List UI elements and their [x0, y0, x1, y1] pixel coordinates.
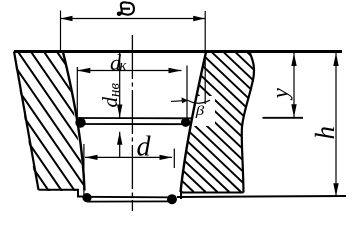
- dimension D right arrowhead: [193, 16, 205, 21]
- angle arc: [188, 100, 210, 103]
- bottom plate left ring dot: [82, 193, 91, 202]
- middle plate bottom line: [79, 123, 193, 125]
- bottom plate top line: [85, 196, 176, 199]
- label D (script): [118, 2, 134, 15]
- hatching left block: [0, 30, 167, 212]
- bottom plate right ring dot: [167, 194, 177, 204]
- bottom surface line right: [177, 196, 346, 197]
- svg-text:d: d: [137, 132, 152, 163]
- angle leader tail: [171, 100, 188, 101]
- middle plate left ring dot: [75, 117, 85, 127]
- dimension d right arrowhead: [160, 155, 173, 160]
- right inner tapered wall: [181, 52, 207, 192]
- dimension y line: [293, 53, 295, 117]
- top surface line: [14, 50, 342, 53]
- dimension dnv upper line with down arrow: [119, 51, 121, 118]
- h bottom arrowhead: [333, 183, 338, 196]
- dnv up arrowhead: [117, 132, 122, 145]
- dimension h line: [335, 53, 337, 196]
- svg-text:h: h: [310, 126, 340, 140]
- dimension d extension line right: [173, 149, 175, 169]
- middle plate right ring dot: [181, 118, 190, 127]
- dimension d extension line left: [83, 144, 85, 198]
- dimension dk line: [77, 70, 181, 72]
- centerline axis: [131, 35, 133, 211]
- dimension D left arrowhead: [61, 16, 73, 21]
- dimension dk right arrowhead: [169, 68, 182, 73]
- angle arrowhead: [182, 97, 189, 103]
- svg-text:β: β: [195, 103, 205, 118]
- dimension D line: [61, 18, 206, 20]
- middle plate top line: [78, 117, 193, 119]
- hatching right block: [22, 40, 354, 192]
- dimension dnv lower line with up arrow: [119, 132, 121, 158]
- y level reference line: [263, 117, 304, 119]
- y bottom arrowhead: [291, 104, 296, 117]
- right block bottom edge: [181, 193, 244, 200]
- dnv down arrowhead: [117, 105, 122, 118]
- h top arrowhead: [333, 53, 338, 66]
- dimension dk left arrowhead: [77, 68, 90, 73]
- dimension D extension line left: [60, 11, 62, 51]
- dimension d left arrowhead: [85, 155, 98, 160]
- white pocket around angle annotation: [189, 96, 215, 126]
- y top arrowhead: [291, 53, 296, 66]
- dimension dk extension line left: [76, 67, 78, 118]
- right block outer wavy edge: [242, 51, 254, 193]
- svg-text:y: y: [268, 87, 293, 100]
- dimension D extension line right / angle reference: [204, 11, 206, 104]
- left block bottom edge: [39, 190, 86, 197]
- dimension d line: [85, 156, 172, 158]
- left block outer edge: [14, 52, 39, 190]
- left inner tapered wall: [63, 52, 85, 191]
- dimension dk extension line right: [186, 66, 188, 127]
- bottom plate bottom line: [87, 200, 174, 202]
